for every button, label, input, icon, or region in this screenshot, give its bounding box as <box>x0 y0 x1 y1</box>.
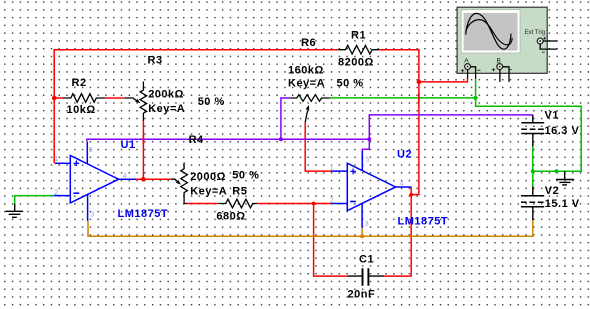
svg-text:2000Ω: 2000Ω <box>190 171 226 183</box>
svg-text:Key=A: Key=A <box>190 186 227 198</box>
svg-text:160kΩ: 160kΩ <box>288 65 324 77</box>
potentiometer R5 2000 vertical <box>171 163 188 204</box>
potentiometer R6 160k horizontal <box>290 95 329 123</box>
svg-text:U2: U2 <box>397 149 412 161</box>
battery V2 15.1V <box>521 187 544 221</box>
wire: red stub from rail junction to R2 <box>54 97 62 99</box>
arrowhead 160k wiper <box>306 105 310 110</box>
node: red junction at R1 output column <box>417 80 422 85</box>
oscilloscope XSC1 body <box>457 7 547 73</box>
scope waveform trace 1 <box>466 13 511 49</box>
svg-text:LM1875T: LM1875T <box>118 208 169 220</box>
scope pin stub B- hook <box>503 67 509 82</box>
scope pin stub A+ <box>467 70 469 79</box>
U2 minus sign <box>350 201 356 203</box>
node: green junction below scope <box>474 96 478 100</box>
svg-text:R1: R1 <box>351 29 366 41</box>
U1 plus sign <box>74 161 80 167</box>
node: red junction U2 output column <box>409 193 413 197</box>
node: red junction top-left rail <box>52 96 57 101</box>
node: green junction V1-V2 <box>531 169 535 173</box>
wire: purple from junction up to 160k pot left <box>281 98 290 139</box>
node: red junction U1 output <box>141 177 146 182</box>
svg-text:B: B <box>497 57 501 64</box>
oscilloscope screen <box>464 13 518 51</box>
svg-text:2: 2 <box>330 198 334 205</box>
wire: red from 160k pot wiper down to U2 pin1 <box>305 123 331 172</box>
scope pin stub Ext+ <box>543 40 557 42</box>
node: green junction at right ground <box>555 169 559 173</box>
svg-text:8200Ω: 8200Ω <box>338 57 374 69</box>
svg-text:R2: R2 <box>72 77 87 89</box>
wire: red from R1 right to corner down to junction and on down to U2 output column <box>379 50 419 195</box>
scope terminal A <box>465 64 471 70</box>
svg-text:16.3 V: 16.3 V <box>545 125 580 137</box>
wire: red R5 bottom to 680 resistor <box>186 203 218 205</box>
svg-text:2: 2 <box>54 190 58 197</box>
scope waveform trace 2 <box>466 20 512 45</box>
wire: red from junction A to scope A input <box>419 78 468 82</box>
wire: red 680 resistor to U2 pin2 <box>257 203 331 205</box>
op-amp U1 LM1875T <box>54 142 136 221</box>
wire: orange U2 pin3 drop <box>361 228 363 237</box>
wire: green between V1 bottom and V2 top <box>532 147 534 187</box>
svg-text:4: 4 <box>400 181 404 188</box>
ground GND2 right <box>556 171 574 185</box>
svg-text:680Ω: 680Ω <box>216 211 245 223</box>
svg-text:50 %: 50 % <box>232 170 259 182</box>
scope pin stub B+ <box>499 70 501 82</box>
svg-text:Key=A: Key=A <box>288 78 325 90</box>
ground GND1 left <box>6 204 24 218</box>
wire: red between R2 and R3 wiper <box>105 97 124 99</box>
op-amp U2 LM1875T <box>331 151 411 228</box>
potentiometer R3 200k vertical <box>124 82 146 121</box>
wire: red U1 output to R5 wiper <box>136 178 171 180</box>
svg-text:50 %: 50 % <box>337 78 364 90</box>
wire: red C1 right up to U2 output <box>384 187 411 276</box>
wire: red left rail and top R6 line to R1 <box>54 50 338 164</box>
svg-text:LM1875T: LM1875T <box>398 216 449 228</box>
svg-text:R4: R4 <box>189 134 204 146</box>
svg-text:50 %: 50 % <box>198 96 225 108</box>
svg-text:15.1 V: 15.1 V <box>545 198 580 210</box>
battery V1 16.3V <box>521 115 544 147</box>
capacitor C1 20nF <box>348 268 385 286</box>
svg-text:3: 3 <box>365 221 369 228</box>
wire: red overlay at R4 crossing <box>142 135 144 144</box>
arrowhead R3 wiper <box>135 99 140 104</box>
svg-text:R6: R6 <box>301 37 316 49</box>
wire: green junction right loop down to battery mid rail <box>476 98 582 171</box>
node: red junction feedback to C1 <box>312 202 316 206</box>
U1 minus sign <box>73 192 79 194</box>
scope pin stub A- hook <box>471 67 476 79</box>
scope terminal B <box>497 64 503 70</box>
svg-text:3: 3 <box>90 211 94 218</box>
resistor R5b 680 <box>218 199 257 208</box>
scope pin stub Ext- hook <box>540 44 557 49</box>
wire: green 160k pot right to scope A- junction <box>330 97 476 99</box>
svg-text:20nF: 20nF <box>348 289 376 301</box>
svg-text:V2: V2 <box>545 185 559 197</box>
arrowhead R5 wiper <box>176 180 181 185</box>
wire: purple R4 rail U1 pin5 to junction <box>87 139 369 142</box>
U2 plus sign <box>350 169 356 175</box>
svg-text:Key=A: Key=A <box>148 103 185 115</box>
resistor R2 10k <box>63 94 106 103</box>
svg-text:V1: V1 <box>545 110 559 122</box>
svg-text:4: 4 <box>123 173 127 180</box>
svg-text:1: 1 <box>55 156 59 163</box>
wire: green scope A- down to junction <box>475 79 477 98</box>
wire: red from R3 bottom down to U1 output junction <box>142 121 144 180</box>
node: purple junction at U2 pin5 column <box>367 137 371 141</box>
svg-text:U1: U1 <box>121 139 136 151</box>
svg-text:R3: R3 <box>148 55 163 67</box>
wire: green U1 pin2 to left ground <box>15 196 54 204</box>
wire: red down to C1 left <box>314 204 348 277</box>
resistor R1 8200 <box>338 45 379 54</box>
svg-text:200kΩ: 200kΩ <box>148 89 184 101</box>
wire: orange negative rail U1 pin3 to V2 bottom <box>88 220 533 236</box>
node: purple junction at 160k pot column <box>279 137 283 141</box>
wire: purple jog down to U2 pin5 <box>362 139 369 151</box>
scope polarity marks <box>461 37 546 73</box>
svg-text:5: 5 <box>366 156 370 163</box>
wire: red overlay at green crossing <box>418 93 420 103</box>
oscilloscope screen frame <box>461 10 520 53</box>
svg-text:C1: C1 <box>359 254 374 266</box>
wire: purple from junction up and right to V1 plus <box>369 115 533 139</box>
node: orange junction U2 pin3 <box>360 234 364 238</box>
scope terminal Ext Trig <box>537 38 543 44</box>
svg-text:R5: R5 <box>232 186 247 198</box>
svg-text:Ext Trig: Ext Trig <box>525 30 545 36</box>
svg-text:1: 1 <box>330 164 334 171</box>
svg-text:A: A <box>464 57 469 64</box>
svg-text:10kΩ: 10kΩ <box>67 104 96 116</box>
svg-text:5: 5 <box>89 147 93 154</box>
